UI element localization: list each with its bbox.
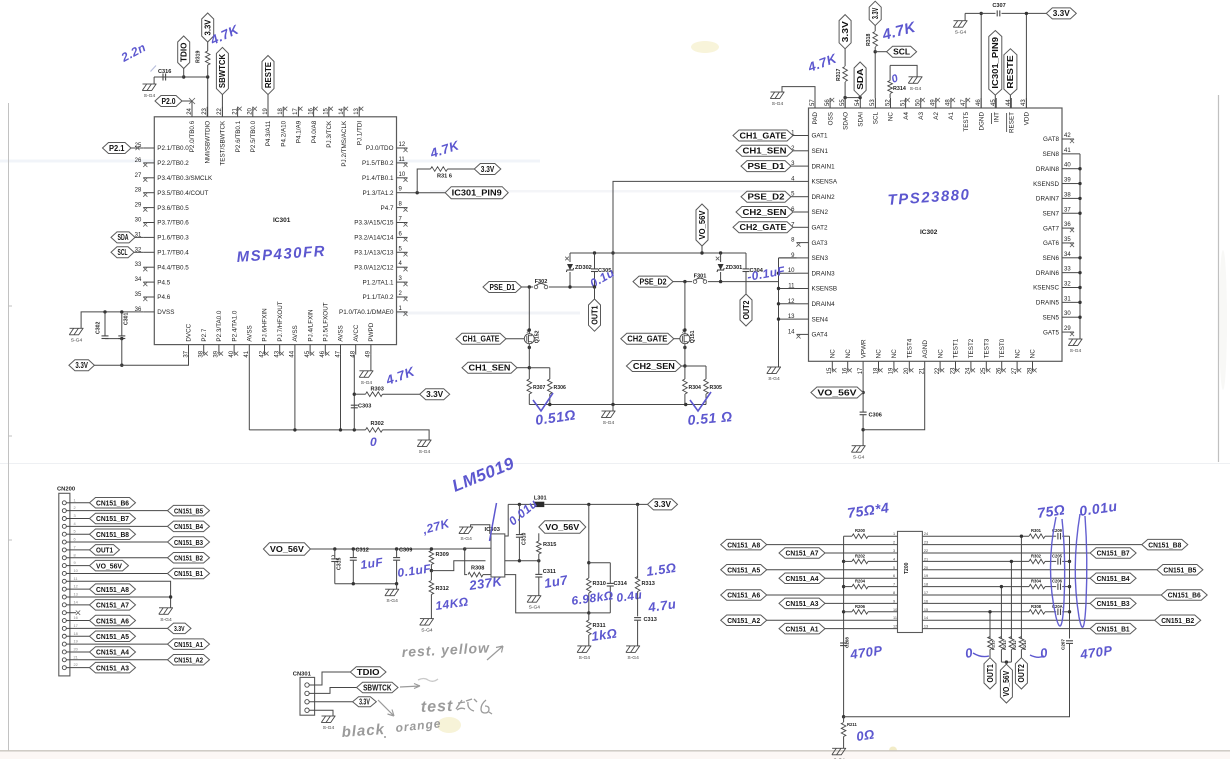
svg-text:20: 20 [74, 646, 79, 651]
IC302 pin 53 SCL [874, 98, 876, 108]
svg-text:4.7K: 4.7K [427, 137, 462, 161]
transformer T200 body [898, 531, 923, 632]
svg-text:DRAIN3: DRAIN3 [812, 270, 836, 277]
svg-text:SEN8: SEN8 [1043, 151, 1060, 158]
svg-text:VO_56V: VO_56V [1002, 670, 1011, 696]
C307 rail with grounds [965, 12, 1046, 14]
svg-text:29: 29 [1064, 326, 1071, 332]
svg-text:0: 0 [1039, 645, 1049, 661]
IC302 pin 22 NC [939, 361, 941, 371]
svg-text:C315: C315 [337, 557, 343, 570]
svg-text:P3.1/A13/C13: P3.1/A13/C13 [354, 250, 394, 257]
svg-text:R213: R213 [1002, 640, 1007, 650]
flag CN151_B3 [922, 602, 1090, 604]
svg-text:GAT1: GAT1 [812, 133, 828, 140]
CN200 pin 5 CN151_B8 [62, 532, 66, 536]
svg-text:17: 17 [74, 623, 78, 628]
flag CN151_B2 [922, 619, 1154, 621]
wire bottom return [844, 644, 1070, 717]
svg-text:SEN3: SEN3 [812, 255, 829, 262]
capacitor C309 [396, 549, 398, 557]
svg-text:PJ.4/LFXIN: PJ.4/LFXIN [307, 309, 314, 342]
svg-text:R318: R318 [866, 33, 872, 46]
svg-text:AVSS: AVSS [338, 325, 345, 341]
svg-text:PAD: PAD [812, 112, 819, 125]
svg-text:45: 45 [305, 350, 311, 357]
svg-text:CN151_A4: CN151_A4 [786, 574, 820, 583]
svg-text:P1.3/TA1.2: P1.3/TA1.2 [362, 190, 394, 197]
IC302 pin 7 GAT2 [797, 226, 809, 228]
IC301 pin 21 P2.6/TB0.1 [237, 107, 239, 117]
flag CN151_B5 [168, 505, 210, 516]
svg-text:18: 18 [278, 107, 284, 114]
svg-text:R307: R307 [533, 385, 546, 391]
svg-text:19: 19 [924, 574, 928, 578]
svg-text:CH1_SEN: CH1_SEN [469, 364, 511, 373]
wire R314 to ground bracket [890, 65, 917, 76]
svg-text:SDAO: SDAO [842, 112, 849, 130]
CN200 pin 7 OUT1 [62, 548, 66, 552]
svg-text:4: 4 [399, 261, 403, 267]
svg-text:48: 48 [946, 99, 952, 106]
flag CN151_A1 [779, 623, 825, 634]
resistor R310 [587, 578, 592, 593]
flag CN151_A4 [90, 647, 136, 658]
CN200 pin 13 GND2 [62, 595, 66, 599]
svg-text:A4: A4 [903, 112, 910, 120]
svg-text:P4.1/A9: P4.1/A9 [296, 120, 303, 143]
svg-text:A3: A3 [918, 112, 925, 120]
svg-text:PJ.1/TDI: PJ.1/TDI [356, 121, 363, 146]
svg-text:PSE_D2: PSE_D2 [640, 277, 668, 286]
flag VO_56V vertical mid [696, 204, 708, 246]
svg-text:VDD: VDD [1024, 112, 1031, 126]
flag 3.3V LM5019 out [648, 499, 678, 510]
svg-text:S-G4: S-G4 [772, 101, 784, 107]
ground S-G4 left of IC302 [771, 91, 785, 93]
svg-text:R302: R302 [371, 421, 384, 427]
IC301 pin 20 P2.5/TB0.0 [252, 107, 254, 117]
svg-text:25: 25 [981, 367, 987, 374]
svg-text:-0.1uF: -0.1uF [746, 263, 786, 283]
capacitor C315 [334, 549, 336, 559]
svg-text:CN151_A6: CN151_A6 [96, 616, 129, 625]
IC302 pin 4 KSENSA [797, 180, 809, 182]
svg-text:6: 6 [74, 537, 76, 542]
flag CN151_A3 [90, 662, 136, 673]
svg-text:CN151_B2: CN151_B2 [1161, 616, 1194, 625]
IC301 pin 40 P2.4/TA1.0 [233, 345, 235, 355]
svg-text:VPWR: VPWR [860, 339, 867, 358]
svg-text:10: 10 [74, 568, 79, 573]
wire OUT1 tap [989, 612, 991, 639]
svg-text:16: 16 [74, 615, 78, 620]
resistor R303 [354, 393, 365, 395]
svg-text:DRAIN2: DRAIN2 [812, 194, 836, 201]
wire left rail pins 9-13 [779, 257, 797, 259]
svg-text:470P: 470P [1078, 643, 1113, 662]
svg-text:S-G4: S-G4 [1070, 348, 1082, 354]
wire VPWR pin17 down [862, 371, 864, 411]
IC302 pin 51 A4 [905, 98, 907, 108]
svg-text:P4.4/TB0.5: P4.4/TB0.5 [157, 264, 189, 271]
wire fuse to C304 [708, 281, 746, 283]
svg-text:GAT8: GAT8 [1043, 136, 1059, 143]
svg-text:VO_56V: VO_56V [270, 545, 305, 554]
svg-text:R202: R202 [855, 553, 866, 558]
svg-text:12: 12 [399, 142, 406, 148]
flag CH1_GATE mid [456, 333, 506, 344]
IC301 pin 27 P3.4/TB0.3/SMCLK [143, 177, 154, 179]
flag OUT1 bottom [984, 658, 996, 689]
svg-text:CN200: CN200 [57, 487, 75, 493]
IC301 pin 30 P3.7/TB0.6 [143, 222, 154, 224]
IC301 pin 11 P1.5/TB0.2 [397, 162, 408, 164]
IC302 pin 5 DRAIN2 [797, 196, 809, 198]
flag CN151_A2 [721, 615, 767, 626]
svg-text:13: 13 [74, 592, 78, 597]
svg-text:34: 34 [1064, 252, 1071, 258]
svg-text:8: 8 [74, 552, 76, 557]
CN200 pin 22 CN151_A3 [62, 666, 66, 670]
svg-text:GAT2: GAT2 [812, 225, 828, 232]
svg-text:R200: R200 [855, 528, 866, 533]
resistor R312 [430, 571, 432, 580]
svg-text:CN151_A6: CN151_A6 [727, 591, 760, 600]
svg-text:CN151_A4: CN151_A4 [96, 648, 130, 657]
svg-text:C303: C303 [358, 404, 371, 410]
capacitor C304 [745, 253, 747, 269]
svg-text:CH2_GATE: CH2_GATE [740, 223, 787, 232]
IC302 pin 41 SEN8 [1062, 153, 1074, 155]
svg-text:42: 42 [259, 350, 265, 357]
IC302 pin 25 TEST3 [985, 361, 987, 371]
svg-text:5: 5 [399, 246, 403, 252]
wire join VO_56V [1001, 661, 1011, 663]
svg-text:C312: C312 [356, 548, 369, 554]
svg-text:9: 9 [74, 560, 76, 565]
svg-text:6.98kΩ: 6.98kΩ [570, 588, 614, 608]
svg-text:P1.5/TB0.2: P1.5/TB0.2 [362, 160, 394, 167]
svg-text:TEST0: TEST0 [999, 338, 1006, 358]
svg-text:orange: orange [395, 716, 442, 735]
resistor R315 [537, 541, 542, 554]
flag VO_56V [90, 560, 129, 571]
svg-text:DVSS: DVSS [157, 309, 174, 316]
IC302 pin 46 DGND [980, 98, 982, 108]
svg-text:P1.6/TB0.3: P1.6/TB0.3 [157, 235, 189, 242]
svg-text:16: 16 [308, 107, 314, 114]
svg-text:RESTE: RESTE [1006, 55, 1015, 88]
svg-text:27: 27 [1012, 367, 1018, 374]
svg-text:test: test [421, 698, 454, 716]
IC301 pin 48 AVCC [355, 345, 357, 355]
flag CN151_B3 [168, 537, 210, 548]
svg-text:KSENSA: KSENSA [812, 179, 838, 186]
svg-text:49: 49 [931, 99, 937, 106]
CN200 pin 1 CN151_B6 [62, 501, 66, 505]
svg-text:S-G4: S-G4 [529, 605, 541, 611]
IC302 pin 23 TEST1 [955, 361, 957, 371]
svg-text:54: 54 [855, 99, 861, 106]
svg-text:CN151_A8: CN151_A8 [727, 540, 760, 549]
capacitor 0.01u right line1 [1045, 535, 1056, 537]
svg-text:39: 39 [214, 350, 220, 357]
svg-text:OUT2: OUT2 [742, 300, 751, 320]
wire pin23 up to junction [207, 77, 209, 117]
CN200 pin 21 CN151_A2 [62, 658, 66, 662]
svg-text:S-G4: S-G4 [768, 376, 780, 382]
svg-text:SDA: SDA [118, 233, 129, 242]
svg-text:P1.2/TA1.1: P1.2/TA1.1 [362, 279, 394, 286]
zener ZD301 [720, 253, 722, 262]
CN200 pin 9 VO_56V [62, 564, 66, 568]
svg-text:CN151_A2: CN151_A2 [727, 616, 760, 625]
resistor R306 [548, 379, 553, 394]
svg-text:21: 21 [924, 557, 928, 561]
svg-text:29: 29 [135, 203, 142, 209]
svg-text:13: 13 [354, 107, 360, 114]
flag CN151_B7 [922, 552, 1090, 554]
flag OUT1 vertical [594, 287, 596, 299]
flag CN151_B7 [90, 513, 136, 524]
svg-text:14: 14 [339, 107, 345, 114]
flag CN151_A6 [90, 615, 136, 626]
flag 3.3V above R318 [869, 1, 881, 25]
svg-text:11: 11 [74, 576, 78, 581]
flag CN151_B4 [168, 521, 210, 532]
capacitor C314 [607, 582, 614, 584]
svg-text:2: 2 [74, 505, 76, 510]
svg-text:16: 16 [924, 599, 928, 603]
wire PWPD pin49 to ground [370, 355, 372, 371]
svg-text:3: 3 [399, 276, 403, 282]
svg-text:32: 32 [1064, 282, 1071, 288]
svg-text:43: 43 [275, 350, 281, 357]
IC301 pin 33 P4.4/TB0.5 [143, 266, 154, 268]
svg-text:6: 6 [399, 231, 403, 237]
IC302 pin 34 SEN6 [1062, 257, 1074, 259]
svg-text:CN151_A2: CN151_A2 [174, 656, 203, 665]
wire C304 to IC302 left rail [746, 281, 779, 283]
svg-text:SEN2: SEN2 [812, 209, 829, 216]
resistor R202 75ohm line4 [844, 560, 852, 562]
IC302 pin 27 NC [1016, 361, 1018, 371]
flag OUT2 bottom [1015, 658, 1027, 689]
svg-text:R211: R211 [847, 722, 857, 727]
svg-text:NC: NC [830, 349, 837, 359]
flag 3.3V top [202, 13, 214, 42]
capacitor C313 [634, 617, 641, 619]
svg-text:P2.7: P2.7 [201, 328, 208, 341]
svg-text:5: 5 [893, 566, 895, 570]
IC302 pin 21 AGND [924, 361, 926, 371]
svg-text:R308: R308 [1031, 604, 1042, 609]
svg-text:P4.0/A8: P4.0/A8 [311, 120, 318, 143]
wire VIN into IC303 [464, 548, 466, 561]
svg-text:TEST2: TEST2 [968, 338, 975, 358]
svg-text:AVSS: AVSS [247, 325, 254, 341]
svg-text:P4.3/A11: P4.3/A11 [265, 120, 272, 146]
IC301 pin 46 PJ.5/LFXOUT [324, 345, 326, 355]
svg-text:26: 26 [997, 367, 1003, 374]
IC302 pin 13 SEN4 [797, 318, 809, 320]
svg-text:38: 38 [199, 350, 205, 357]
IC301 pin 28 P3.5/TB0.4/COUT [143, 192, 154, 194]
svg-text:AVCC: AVCC [353, 324, 360, 341]
svg-text:34: 34 [135, 277, 142, 283]
svg-text:CN151_B7: CN151_B7 [1097, 549, 1130, 558]
svg-text:C307: C307 [992, 3, 1005, 9]
ground S-G4 CN200 [159, 607, 173, 609]
IC302 pin 37 SEN7 [1062, 212, 1074, 214]
svg-text:C206: C206 [1052, 579, 1063, 584]
svg-text:KSENSB: KSENSB [812, 286, 838, 293]
svg-text:P3.3/A15/C15: P3.3/A15/C15 [354, 220, 394, 227]
svg-text:56: 56 [825, 99, 831, 106]
svg-text:R319: R319 [196, 50, 202, 63]
flag VO_56V small [539, 521, 586, 534]
svg-text:P2.1: P2.1 [109, 144, 125, 153]
IC302 pin 20 TEST4 [908, 361, 910, 371]
svg-text:P2.3/TA0.0: P2.3/TA0.0 [216, 310, 223, 342]
IC302 pin 43 VDD [1025, 98, 1027, 108]
svg-text:R204: R204 [855, 579, 866, 584]
svg-text:S-G4: S-G4 [71, 337, 83, 343]
ground S-G4 bottom T200 [832, 747, 846, 749]
fuse F301 [693, 280, 697, 284]
ground S-G4 mid rail [612, 405, 614, 412]
wire left common rail [843, 536, 845, 717]
svg-text:DRAIN1: DRAIN1 [812, 163, 836, 170]
IC301 pin 45 PJ.4/LFXIN [309, 345, 311, 355]
wire sense resistor pair CH2 [685, 365, 706, 367]
svg-text:23: 23 [202, 107, 208, 114]
capacitor C307 [996, 10, 1002, 16]
svg-text:RESET: RESET [1009, 112, 1016, 133]
svg-text:4.7K: 4.7K [383, 363, 418, 388]
svg-text:KSENSC: KSENSC [1033, 285, 1059, 292]
svg-text:40: 40 [229, 350, 235, 357]
ground S-G4 under left rail [767, 366, 781, 368]
svg-text:36: 36 [1064, 222, 1071, 228]
svg-text:22: 22 [74, 662, 78, 667]
svg-text:C301: C301 [124, 312, 130, 325]
flag CN151_B5 [922, 569, 1157, 571]
flag PSE_D1 at pin3 [741, 161, 791, 172]
scan edge right [1218, 95, 1220, 462]
right RC termination rail [1069, 536, 1071, 638]
svg-text:20: 20 [904, 367, 910, 374]
flag IC301_PIN9 vertical [989, 31, 1002, 96]
svg-text:37: 37 [1064, 207, 1071, 213]
pencil arrow down from 3.3V [378, 700, 394, 716]
svg-text:51: 51 [900, 99, 906, 106]
svg-text:CN151_B6: CN151_B6 [1168, 591, 1201, 600]
svg-text:19: 19 [74, 639, 78, 644]
flag VO_56V bottom [1000, 664, 1012, 703]
svg-text:P4.7: P4.7 [381, 205, 394, 212]
ground S-G4 under C306 [852, 445, 866, 447]
IC301 pin 42 PJ.6/HFXIN [264, 345, 266, 355]
flag CN151_A8 [721, 539, 767, 550]
svg-text:R312: R312 [436, 586, 449, 592]
svg-text:CN151_B4: CN151_B4 [1097, 574, 1131, 583]
IC302 pin 17 VPWR [862, 361, 864, 371]
svg-text:RESTE: RESTE [264, 62, 273, 88]
capacitor C316 [154, 76, 161, 78]
svg-text:S-G4: S-G4 [853, 455, 865, 461]
svg-text:F302: F302 [535, 279, 548, 285]
flag TDIO CN301 [350, 667, 386, 678]
svg-text:S-G4: S-G4 [160, 617, 172, 623]
svg-text:S-G4: S-G4 [421, 628, 433, 634]
CN200 pin 10 CN151_B1 [62, 571, 66, 575]
svg-text:NC: NC [891, 349, 898, 359]
IC302 pin 24 TEST2 [970, 361, 972, 371]
svg-text:SEN5: SEN5 [1043, 314, 1060, 321]
flag CN151_A5 [90, 631, 136, 642]
svg-text:12: 12 [893, 625, 897, 629]
svg-text:L301: L301 [534, 496, 547, 502]
svg-text:S-G4: S-G4 [361, 380, 373, 386]
IC301 pin 32 P1.7/TB0.4 [143, 251, 154, 253]
CN200 pin 3 CN151_B7 [62, 517, 66, 521]
wire VDD pin43 up [1025, 13, 1027, 108]
CN301 pin4 wire to ground [309, 710, 333, 716]
svg-text:15: 15 [924, 608, 928, 612]
svg-text:CH1_SEN: CH1_SEN [743, 147, 787, 156]
svg-text:57: 57 [810, 99, 816, 106]
svg-text:3.3V: 3.3V [871, 7, 880, 19]
svg-text:17: 17 [293, 107, 299, 114]
svg-text:NC: NC [876, 349, 883, 359]
capacitor 0.01u right line7 [1045, 586, 1056, 588]
svg-text:3.3V: 3.3V [75, 361, 88, 370]
svg-text:30: 30 [135, 218, 142, 224]
svg-text:6: 6 [893, 574, 895, 578]
svg-text:13: 13 [924, 625, 928, 629]
svg-text:P1.7/TB0.4: P1.7/TB0.4 [157, 250, 189, 257]
svg-text:PJ.3/TCK: PJ.3/TCK [326, 120, 333, 148]
CN301 pin3 wire to 3.3V [309, 701, 352, 703]
IC302 pin 57 PAD [814, 98, 816, 108]
ground S-G4 under C316 [153, 77, 155, 84]
svg-text:SCL: SCL [873, 112, 880, 125]
wire KSENSA pin4 long net [613, 181, 797, 404]
svg-text:CN151_A5: CN151_A5 [727, 566, 760, 575]
svg-text:P3.5/TB0.4/COUT: P3.5/TB0.4/COUT [157, 190, 208, 197]
svg-text:4.7K: 4.7K [880, 19, 919, 45]
svg-text:33: 33 [1064, 267, 1071, 273]
IC301 pin 36 DVSS [143, 311, 154, 313]
flag CN151_A8 [90, 584, 136, 595]
zener ZD302 [569, 253, 571, 262]
svg-text:CN151_B7: CN151_B7 [96, 514, 129, 523]
ground S-G4 right of R314 [909, 76, 923, 78]
svg-text:14: 14 [924, 616, 928, 620]
IC302 pin 15 NC [831, 361, 833, 371]
svg-text:SCL: SCL [893, 48, 910, 57]
flag CN151_A6 [721, 590, 767, 601]
IC301 pin 31 P1.6/TB0.3 [143, 236, 154, 238]
svg-text:2.2n: 2.2n [118, 40, 148, 65]
svg-text:DRAIN8: DRAIN8 [1036, 166, 1060, 173]
svg-text:P2.0: P2.0 [162, 97, 177, 106]
svg-text:OUT1: OUT1 [986, 664, 995, 683]
connector CN200 body [59, 493, 70, 676]
svg-text:R304: R304 [689, 385, 702, 391]
